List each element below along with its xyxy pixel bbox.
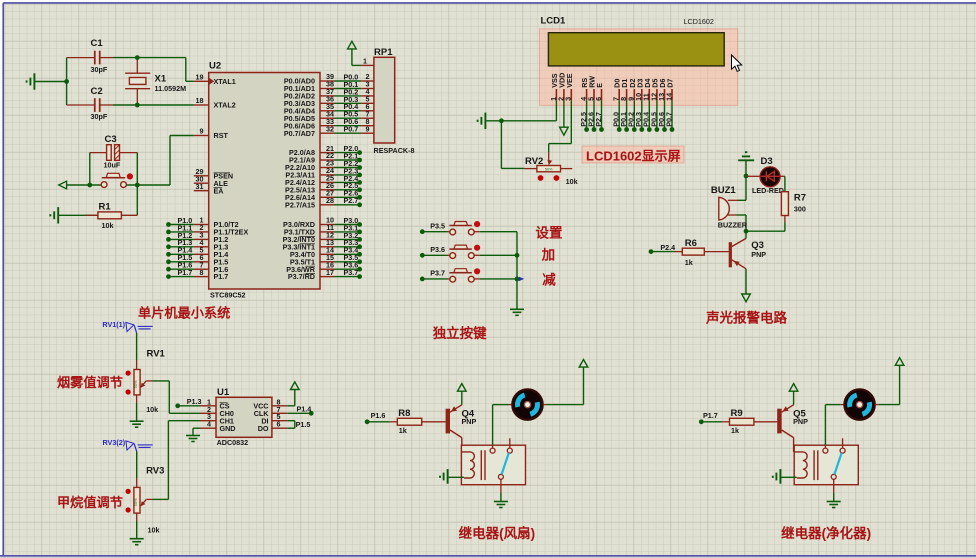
terminal P1.4 (CLK) (287, 404, 313, 415)
U2 pin 38 P0.1 wire to RP1 pin 3 (284, 80, 375, 93)
resistor R6 1k (651, 238, 729, 267)
svg-text:RST: RST (214, 131, 229, 140)
U1 pin 3 CH1 (201, 412, 234, 425)
U1 pin 8 VCC (253, 397, 287, 410)
svg-text:C1: C1 (91, 38, 104, 49)
U2 pin 7 P1.6 with net label (166, 260, 228, 273)
svg-text:独立按键: 独立按键 (433, 325, 487, 341)
LCD pin 13 D6 (657, 79, 667, 132)
svg-text:声光报警电路: 声光报警电路 (705, 310, 787, 326)
svg-text:P1.6: P1.6 (371, 411, 386, 420)
svg-text:P1.5: P1.5 (296, 420, 311, 429)
svg-text:BUZ1: BUZ1 (711, 185, 737, 196)
svg-text:P1.7: P1.7 (178, 268, 193, 277)
wire RV1 wiper-CH0 (153, 381, 201, 413)
svg-text:XTAL1: XTAL1 (214, 77, 236, 86)
svg-text:31: 31 (196, 182, 204, 191)
LCD selection highlight (540, 29, 738, 106)
wire probe-RV1 (136, 333, 138, 360)
U2 pin 15 P3.5/T1 net label (290, 253, 362, 267)
svg-text:P1.7: P1.7 (214, 272, 229, 281)
svg-text:甲烷值调节: 甲烷值调节 (57, 494, 123, 510)
svg-text:300: 300 (794, 204, 806, 213)
ground (crystal) (27, 73, 67, 89)
push button P3.5 (420, 221, 517, 235)
svg-text:P0.7: P0.7 (664, 112, 673, 127)
power arrow (RP1 pin1) (348, 41, 362, 65)
svg-text:P2.4: P2.4 (660, 243, 675, 252)
svg-text:10uF: 10uF (104, 161, 121, 170)
svg-text:PNP: PNP (793, 417, 808, 426)
svg-text:R9: R9 (731, 408, 743, 419)
LCD pin 5 RW (586, 76, 596, 132)
wire button-R1 (136, 185, 138, 215)
wire VSS to ground (485, 100, 556, 121)
node VSS junction (499, 118, 504, 123)
svg-text:50%: 50% (545, 167, 553, 172)
U2 pin 3 P1.2 with net label (166, 231, 228, 244)
U2 pin 10 P3.0/RXD net label (283, 216, 362, 229)
U1 pin 4 GND (201, 420, 236, 433)
terminal P2.4 (649, 243, 676, 254)
svg-text:10k: 10k (102, 221, 114, 230)
svg-text:C2: C2 (91, 86, 103, 97)
crystal X1 (125, 58, 186, 105)
terminal P1.6 (365, 411, 386, 424)
svg-text:X1: X1 (155, 74, 167, 85)
svg-text:设置: 设置 (536, 225, 564, 240)
wire C3 right leg (136, 153, 138, 185)
U2 pin 1 P1.0 with net label (166, 216, 239, 229)
power arrow (Q4 emitter) (461, 391, 463, 405)
svg-text:1k: 1k (731, 426, 739, 435)
power arrow (motor purifier) (899, 365, 901, 404)
svg-text:9: 9 (366, 124, 370, 133)
node Q3 emitter junction (744, 229, 749, 234)
svg-text:9: 9 (200, 127, 204, 136)
node crystal-gnd junction (64, 79, 69, 84)
U2 pin 29 PSEN (194, 167, 233, 180)
LCD pin 6 E (594, 83, 604, 132)
svg-text:10k: 10k (148, 525, 160, 534)
svg-text:32: 32 (326, 124, 334, 133)
relay fan (461, 438, 525, 492)
capacitor C3 (90, 134, 138, 170)
LCD pin 7 D0 (612, 79, 622, 132)
svg-text:P3.5: P3.5 (430, 221, 445, 230)
motor purifier (825, 389, 899, 445)
svg-text:单片机最小系统: 单片机最小系统 (138, 304, 230, 320)
LCD pin 10 D3 (634, 79, 644, 132)
U2 pin 11 P3.1/TXD net label (284, 223, 362, 236)
U2 pin 27 P2.6 net label (285, 189, 362, 202)
svg-text:P3.6: P3.6 (430, 245, 445, 254)
U2 pin 26 P2.5 net label (285, 181, 362, 194)
LCD1602 screen (548, 33, 724, 66)
node trunk P3.6 (515, 253, 520, 258)
resistor R7 300 (781, 192, 806, 232)
terminal arrow (reset row) (59, 181, 102, 189)
svg-text:P3.7: P3.7 (344, 268, 359, 277)
terminal P1.7 (699, 411, 718, 424)
wire D3-R7 (780, 176, 785, 191)
resistor pack RP1 RESPACK-8 (361, 47, 414, 155)
transistor Q3 PNP (729, 231, 767, 269)
U2 pin 39 P0.0 wire to RP1 pin 2 (284, 72, 375, 85)
U2 pin 34 P0.5 wire to RP1 pin 7 (284, 110, 375, 123)
U2 pin 12 P3.2/INT0 net label (283, 231, 362, 244)
U2 pin 16 P3.6/WR net label (286, 260, 362, 273)
label LCD1602 xianshiping (582, 146, 684, 163)
node X1 bottom (135, 103, 140, 108)
LCD pin 11 D4 (642, 79, 652, 132)
output arrow (Q3 collector) (742, 269, 751, 302)
svg-text:50%: 50% (133, 380, 138, 388)
svg-text:4: 4 (207, 420, 211, 429)
U1 pin 2 CH0 (201, 405, 234, 418)
LCD pin 2 VDD (556, 73, 566, 101)
resistor R8 1k (367, 408, 446, 435)
U1 pin 6 DO (258, 420, 288, 433)
svg-text:PNP: PNP (751, 250, 766, 259)
svg-text:30pF: 30pF (91, 65, 108, 74)
svg-text:P2.7/A15: P2.7/A15 (285, 200, 315, 209)
svg-text:R7: R7 (794, 193, 806, 204)
relay purifier (794, 438, 859, 492)
U2 pin 4 P1.3 with net label (166, 238, 228, 251)
svg-text:RV1(1): RV1(1) (102, 320, 125, 329)
svg-text:XTAL2: XTAL2 (214, 101, 236, 110)
svg-text:19: 19 (196, 73, 204, 82)
wire DI-DO P1.5 (287, 420, 310, 429)
svg-text:C3: C3 (105, 134, 117, 145)
svg-text:P1.7: P1.7 (703, 411, 718, 420)
U2 pin 36 P0.3 wire to RP1 pin 5 (284, 95, 375, 108)
resistor R1 10k (59, 202, 137, 230)
node button left (87, 183, 92, 188)
U2 pin 9 RST (194, 127, 229, 140)
power arrow (U1 VCC) (287, 382, 299, 406)
node D3 junction (744, 174, 749, 179)
U1 pin 7 CLK (254, 405, 288, 418)
wire RV3 wiper-CH1 (153, 421, 201, 500)
terminal P1.3 (175, 397, 201, 408)
mouse cursor (732, 55, 742, 71)
U1 pin 1 CS (201, 397, 230, 410)
U2 pin 13 P3.3/INT1 net label (283, 238, 362, 251)
LED D3 LED-RED (746, 156, 784, 195)
svg-text:14: 14 (664, 93, 673, 101)
svg-text:PNP: PNP (462, 417, 477, 426)
capacitor C2 (67, 86, 113, 121)
svg-text:17: 17 (326, 268, 334, 277)
U2 pin 25 P2.4 net label (285, 174, 362, 187)
power arrow (Q5 emitter) (793, 391, 795, 405)
svg-text:28: 28 (326, 196, 334, 205)
buzzer BUZ1 (711, 176, 748, 231)
svg-text:LCD1: LCD1 (541, 16, 567, 27)
svg-text:1k: 1k (685, 258, 693, 267)
U2 pin 35 P0.4 wire to RP1 pin 6 (284, 102, 375, 115)
U2 pin 19 XTAL1 (194, 73, 236, 86)
svg-text:1k: 1k (399, 426, 407, 435)
U2 pin 24 P2.3 net label (285, 166, 362, 179)
motor fan (493, 389, 584, 445)
LCD pin 9 D2 (627, 79, 637, 132)
svg-text:U2: U2 (209, 61, 221, 72)
svg-text:RV3(2): RV3(2) (103, 438, 126, 447)
svg-text:P0.7: P0.7 (344, 125, 359, 134)
svg-text:继电器(风扇): 继电器(风扇) (459, 525, 535, 541)
svg-text:1: 1 (363, 56, 367, 65)
wire button-RST (127, 136, 194, 186)
wire Q4 collector to relay (461, 438, 463, 452)
svg-text:8: 8 (200, 268, 204, 277)
transistor Q4 PNP (446, 405, 477, 438)
U2 pin 6 P1.5 with net label (166, 253, 228, 267)
svg-text:RV1: RV1 (147, 348, 166, 359)
wire C1-C2 left vertical (66, 58, 68, 105)
svg-text:R8: R8 (398, 408, 410, 419)
svg-text:E: E (595, 83, 604, 88)
svg-text:P0.7/AD7: P0.7/AD7 (284, 129, 315, 138)
wire VEE to RV2 wiper (549, 100, 572, 152)
U2 pin 22 P2.1 net label (289, 151, 362, 164)
svg-text:RP1: RP1 (374, 47, 393, 58)
svg-text:R6: R6 (685, 238, 697, 249)
LCD pin 14 D7 (664, 79, 674, 132)
svg-text:11.0592M: 11.0592M (155, 84, 187, 93)
ADC U1 ADC0832 (216, 387, 272, 447)
svg-text:10k: 10k (146, 405, 158, 414)
svg-text:RV2: RV2 (525, 156, 543, 167)
svg-text:BUZZER: BUZZER (718, 220, 748, 229)
ground (relay purifier common) (827, 493, 841, 508)
wire Q5 collector to relay (793, 438, 795, 452)
U1 pin 5 DI (261, 412, 287, 425)
LCD pin 4 RS (579, 78, 589, 132)
U2 pin 28 P2.7 net label (285, 196, 362, 209)
svg-text:烟雾值调节: 烟雾值调节 (57, 374, 123, 390)
U2 pin 37 P0.2 wire to RP1 pin 4 (284, 87, 375, 100)
svg-text:继电器(净化器): 继电器(净化器) (781, 525, 871, 541)
ground (relay fan common) (494, 493, 508, 508)
svg-text:RV3: RV3 (146, 465, 164, 476)
U2 pin 23 P2.2 net label (285, 159, 362, 172)
svg-text:P3.7: P3.7 (430, 269, 445, 278)
svg-text:GND: GND (220, 424, 236, 433)
voltage probe RV3(2) (103, 438, 153, 451)
transistor Q5 PNP (777, 405, 808, 438)
svg-text:10k: 10k (566, 177, 578, 186)
potentiometer RV2 10k (525, 152, 578, 186)
voltage probe RV1(1) (102, 320, 152, 333)
ground (RV3) (130, 521, 144, 545)
svg-text:P2.7: P2.7 (594, 112, 603, 127)
svg-text:P1.3: P1.3 (187, 397, 202, 406)
capacitor C1 (67, 38, 113, 74)
potentiometer RV3 10k (126, 465, 165, 534)
LCD pin 8 D1 (619, 79, 629, 132)
U2 pin 30 ALE (194, 174, 228, 187)
U2 pin 8 P1.7 with net label (166, 268, 228, 281)
wire probe-RV3 (136, 451, 138, 478)
node trunk P3.7 (515, 277, 525, 282)
wire junction-R7 (746, 230, 785, 232)
relay fan switch blade (502, 453, 509, 475)
U2 pin 21 P2.0 net label (289, 144, 362, 157)
ground (relay purifier coil) (773, 469, 797, 484)
svg-text:D7: D7 (666, 79, 675, 88)
potentiometer RV1 10k (126, 348, 166, 413)
svg-text:U1: U1 (217, 387, 230, 398)
LCD pin 1 VSS (549, 73, 559, 101)
svg-text:18: 18 (196, 96, 204, 105)
svg-text:DO: DO (258, 424, 269, 433)
svg-text:VEE: VEE (565, 73, 574, 88)
U2 pin 2 P1.1 with net label (166, 223, 248, 236)
wire C3 left leg (89, 153, 91, 185)
ground (LCD VSS) (484, 113, 486, 129)
push button P3.6 (420, 245, 517, 259)
ground (buttons) (510, 308, 524, 310)
svg-text:减: 减 (542, 272, 556, 288)
wire button trunk (516, 232, 518, 309)
LCD pin 12 D5 (649, 79, 659, 132)
svg-text:STC89C52: STC89C52 (210, 291, 246, 300)
microcontroller U2 STC89C52 (209, 61, 320, 300)
reset push button (101, 173, 133, 187)
U2 pin 31 EA (194, 182, 224, 195)
U2 XTAL1 clock marker (209, 78, 214, 85)
ground (alarm top) (738, 152, 754, 176)
node button right (135, 183, 140, 188)
U2 pin 5 P1.4 with net label (166, 246, 228, 259)
U2 pin 32 P0.7 wire to RP1 pin 9 (284, 124, 375, 138)
U2 pin 14 P3.4/T0 net label (290, 246, 362, 259)
svg-text:50%: 50% (133, 498, 138, 506)
svg-text:LCD1602显示屏: LCD1602显示屏 (586, 148, 681, 163)
relay purifier switch blade (834, 453, 841, 475)
svg-text:ADC0832: ADC0832 (217, 438, 249, 447)
wire C2-XTAL2 (113, 104, 194, 106)
power arrow (motor fan) (583, 367, 585, 405)
svg-text:RESPACK-8: RESPACK-8 (374, 146, 415, 155)
power down arrow (VDD) (560, 100, 569, 135)
svg-text:LED-RED: LED-RED (752, 186, 784, 195)
wire to RV2 (501, 121, 524, 169)
push button P3.7 (420, 268, 517, 282)
ground (R1) (57, 207, 59, 223)
ground (U1 GND) (186, 428, 201, 441)
svg-text:30pF: 30pF (91, 112, 108, 121)
svg-text:6: 6 (277, 420, 281, 429)
svg-text:LCD1602: LCD1602 (684, 17, 714, 26)
svg-text:R1: R1 (99, 202, 112, 213)
ground (relay fan coil) (440, 469, 464, 484)
svg-text:P1.4: P1.4 (297, 404, 312, 413)
U2 pin 17 P3.7/RD net label (288, 268, 362, 281)
node X1 top (135, 55, 140, 60)
U2 pin 18 XTAL2 (194, 96, 236, 109)
ground (RV1) (130, 403, 144, 427)
resistor R9 1k (701, 408, 777, 435)
LCD pin 3 VEE (564, 73, 574, 101)
svg-text:D3: D3 (761, 156, 773, 167)
svg-text:加: 加 (541, 248, 556, 263)
U2 pin 33 P0.6 wire to RP1 pin 8 (284, 117, 375, 130)
svg-text:P2.7: P2.7 (344, 196, 359, 205)
wire C1-XTAL1 (113, 58, 194, 82)
